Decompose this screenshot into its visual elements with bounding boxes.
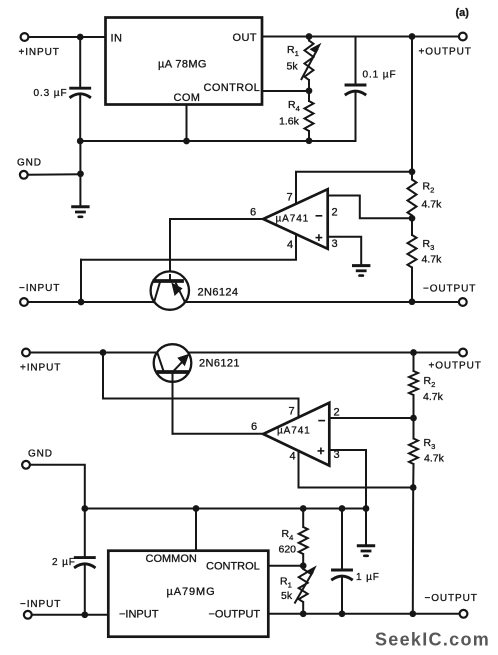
terminal -INPUT (bottom circuit) <box>24 611 32 619</box>
pin3 plus sign (bottom op-amp) <box>318 450 325 452</box>
svg-text:µA79MG: µA79MG <box>167 586 216 598</box>
svg-text:4: 4 <box>287 239 293 251</box>
Q2 base bar <box>159 370 188 374</box>
node: R3 bottom / -output junction <box>409 298 416 305</box>
wire pin3 to ground <box>328 237 362 265</box>
svg-text:CONTROL: CONTROL <box>204 82 261 94</box>
svg-text:4.7k: 4.7k <box>422 199 443 211</box>
pin2 minus sign <box>316 215 323 217</box>
wire COMMON pin <box>195 509 197 552</box>
Q1 collector leg with arrow <box>176 284 185 303</box>
node: pin4 / -input junction <box>78 299 85 306</box>
wire pin2 to R2/R3 junction (bottom) <box>329 417 413 419</box>
terminal +INPUT (top circuit) <box>21 33 29 41</box>
svg-text:µA741: µA741 <box>276 214 310 225</box>
wire pin4 down and left <box>81 234 296 259</box>
node: R2/R3 junction (top circuit) <box>409 215 416 222</box>
wire +input to regulator IN <box>29 36 106 38</box>
svg-text:+OUTPUT: +OUTPUT <box>429 361 482 372</box>
wire CONTROL to R1/R4 junction <box>262 90 309 92</box>
Q2 emitter leg <box>157 353 163 371</box>
svg-text:2N6121: 2N6121 <box>199 358 240 370</box>
svg-text:2 µF: 2 µF <box>52 557 76 568</box>
svg-text:1 µF: 1 µF <box>356 572 380 583</box>
resistor R3 4.7k (top circuit) <box>411 218 413 235</box>
node: rail / -output junction <box>409 610 416 617</box>
node: R4 bottom <box>306 137 313 144</box>
node: -input / C2uF junction <box>81 611 88 618</box>
svg-text:4.7k: 4.7k <box>424 453 445 465</box>
wire +input line (bottom circuit) <box>30 352 458 354</box>
terminal -OUTPUT (bottom circuit) <box>460 610 468 618</box>
op-amp U2 uA741 (top circuit) <box>263 189 328 249</box>
node: gnd junction <box>77 170 84 177</box>
wire op-amp pin2 to R2/R3 junction <box>328 196 412 219</box>
terminal +INPUT (bottom circuit) <box>22 349 30 357</box>
svg-text:620: 620 <box>279 544 297 556</box>
svg-text:µA 78MG: µA 78MG <box>158 59 207 71</box>
pin3 plus sign <box>316 237 323 239</box>
resistor R2 4.7k (top circuit) <box>408 180 417 216</box>
node: R4/R1/control junction <box>300 562 307 569</box>
svg-text:−OUTPUT: −OUTPUT <box>425 593 478 604</box>
pin2 minus sign (bottom op-amp) <box>318 420 325 422</box>
wire COM pin <box>186 105 188 142</box>
Q1 emitter leg <box>154 282 160 302</box>
svg-text:+INPUT: +INPUT <box>19 47 60 58</box>
svg-text:5k: 5k <box>287 61 299 73</box>
terminal +OUTPUT (bottom circuit) <box>459 349 467 357</box>
wire -input to regulator (bottom) <box>32 614 108 616</box>
node: +input / C1 junction <box>77 34 84 41</box>
node: C 1uF bottom <box>339 610 346 617</box>
svg-text:4.7k: 4.7k <box>423 391 444 403</box>
resistor R4 620 <box>302 509 304 528</box>
wire output rail down <box>411 37 413 180</box>
terminal -OUTPUT (top circuit) <box>459 298 467 306</box>
resistor R4 1.6k <box>308 91 310 101</box>
node: rail top (bottom circuit) <box>410 349 417 356</box>
node: COMMON branch <box>193 505 200 512</box>
wire rail down to -output line <box>412 488 414 614</box>
wire pin6 to transistor base <box>170 219 263 281</box>
svg-text:4.7k: 4.7k <box>422 254 443 266</box>
node: C 1uF top <box>339 505 346 512</box>
svg-text:CONTROL: CONTROL <box>206 561 260 573</box>
capacitor 1 uF <box>341 509 343 571</box>
arrow of variable resistor R1 (bottom) <box>295 572 314 604</box>
svg-text:0.1 µF: 0.1 µF <box>363 70 397 81</box>
Q2 collector leg with arrow <box>175 361 184 370</box>
svg-text:+OUTPUT: +OUTPUT <box>419 47 472 58</box>
wire ground rail (bottom circuit) <box>85 508 366 510</box>
node: COM pin <box>183 138 190 145</box>
svg-text:µA741: µA741 <box>277 426 311 437</box>
resistor R2 4.7k (bottom circuit) <box>413 353 415 372</box>
node: R1 bottom <box>300 610 307 617</box>
node: output rail top <box>409 33 416 40</box>
node: R3 bottom / pin4 junction <box>410 484 417 491</box>
svg-text:−INPUT: −INPUT <box>119 609 159 621</box>
wire OUT to +OUTPUT <box>262 36 458 38</box>
node: R1 top <box>306 33 313 40</box>
svg-text:COMMON: COMMON <box>146 553 197 565</box>
transistor Q1 2N6124 <box>151 271 189 309</box>
wire +input branch to op-amp pin7 <box>103 353 299 418</box>
svg-text:4: 4 <box>290 451 296 463</box>
regulator U1 uA78MG box <box>106 18 263 105</box>
ground symbol (top left) <box>73 205 88 208</box>
wire -input/-output line (top circuit) <box>28 301 458 303</box>
svg-text:0.3 µF: 0.3 µF <box>34 88 68 99</box>
resistor R1 5k (variable) <box>308 37 310 41</box>
svg-text:(a): (a) <box>456 7 470 19</box>
node: cap 0.3uF bottom <box>77 138 84 145</box>
ground symbol (bottom circuit) <box>358 544 373 547</box>
svg-text:7: 7 <box>287 192 293 204</box>
ground symbol (op-amp pin3, top circuit) <box>354 264 369 267</box>
svg-text:7: 7 <box>289 406 295 418</box>
terminal GND (bottom circuit) <box>22 461 30 469</box>
svg-text:COM: COM <box>174 92 201 104</box>
svg-text:2: 2 <box>332 207 338 219</box>
svg-text:+INPUT: +INPUT <box>20 363 61 374</box>
wire gnd terminal to rail <box>28 173 80 176</box>
capacitor 0.3 uF <box>79 37 81 88</box>
wire gnd terminal to left rail <box>30 465 85 557</box>
svg-text:3: 3 <box>332 238 338 250</box>
svg-text:2: 2 <box>334 407 340 419</box>
resistor R3 4.7k (bottom circuit) <box>409 439 418 465</box>
terminal +OUTPUT (top circuit) <box>459 33 467 41</box>
svg-text:IN: IN <box>111 33 123 45</box>
wire pin4 rail down to -input line <box>80 260 82 302</box>
svg-text:−OUTPUT: −OUTPUT <box>423 284 476 295</box>
resistor R1 5k (variable, bottom circuit) <box>302 566 304 569</box>
wire pin6 from transistor base <box>173 433 264 435</box>
wire -output line (bottom circuit) <box>268 613 459 615</box>
regulator U4 uA79MG box <box>108 551 268 637</box>
node: pin7 branch <box>100 349 107 356</box>
svg-text:6: 6 <box>250 207 256 219</box>
svg-text:1.6k: 1.6k <box>279 116 300 128</box>
wire junction down to ground symbol <box>365 509 367 545</box>
Q2 base wire down <box>172 372 174 434</box>
wire rail down to ground <box>79 141 81 206</box>
node: rail / pin7 junction <box>409 168 416 175</box>
Q1 base bar <box>155 279 183 283</box>
transistor Q2 2N6121 <box>154 344 192 382</box>
arrow of variable resistor R1 <box>301 49 318 81</box>
svg-text:6: 6 <box>251 421 257 433</box>
svg-text:SeekIC.com: SeekIC.com <box>375 630 490 650</box>
terminal -INPUT (top circuit) <box>20 298 28 306</box>
svg-text:OUT: OUT <box>233 32 257 44</box>
wire pin4 down and right to rail <box>299 451 414 488</box>
capacitor 2 uF <box>84 556 86 558</box>
wire pin3 down to gnd rail <box>329 450 366 509</box>
svg-text:−OUTPUT: −OUTPUT <box>209 609 261 621</box>
wire op-amp pin7 to output rail <box>296 172 412 204</box>
wire common rail (top circuit) <box>80 140 355 142</box>
svg-text:−INPUT: −INPUT <box>19 283 60 294</box>
node: R4 top <box>300 505 307 512</box>
terminal GND (top circuit) <box>20 171 28 179</box>
wire CONTROL pin to R4/R1 junction <box>268 565 303 567</box>
svg-text:GND: GND <box>17 158 42 169</box>
node: gnd rail junction <box>81 505 88 512</box>
svg-text:GND: GND <box>28 449 53 460</box>
node: R2/R3 junction (bottom circuit) <box>410 415 417 422</box>
capacitor 0.1 uF <box>355 37 357 86</box>
svg-text:2N6124: 2N6124 <box>198 287 239 299</box>
node: R1/R4/control junction <box>306 87 313 94</box>
svg-text:−INPUT: −INPUT <box>20 599 61 610</box>
node: pin3 gnd junction <box>363 505 370 512</box>
svg-text:5k: 5k <box>281 590 293 602</box>
